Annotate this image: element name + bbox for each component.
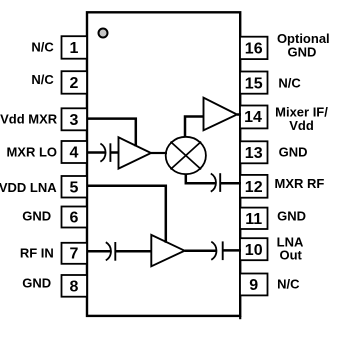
svg-text:Vdd MXR: Vdd MXR [0,111,58,126]
svg-text:10: 10 [245,242,263,259]
svg-text:N/C: N/C [31,72,54,87]
wire capacitor C3 to amp U5 input [115,250,152,253]
pin 4 box [62,141,88,163]
svg-text:3: 3 [70,112,79,129]
pin 12 box [240,175,268,198]
wire amp U4 output to pin 14 [237,113,241,116]
pin 10 box [240,238,268,260]
wire pin5 VDD LNA to amp U5 top [87,186,166,243]
svg-text:GND: GND [22,209,51,224]
wire amp U5 output to capacitor C4 [185,249,217,252]
pin 11 box [240,208,268,229]
op-amp U4 IF amp triangle [204,98,238,131]
svg-text:15: 15 [245,75,263,92]
capacitor C3 curved plate [106,242,111,260]
wire mixer bottom to capacitor C2 [186,174,216,183]
svg-text:6: 6 [70,210,79,227]
capacitor C3 straight plate [114,242,116,261]
svg-text:GND: GND [22,276,51,291]
wire amp U2 output to mixer [151,152,167,154]
wire pin3 Vdd MXR to amp U2 top [87,119,136,147]
capacitor C4 curved plate [211,242,216,260]
svg-text:GND: GND [277,208,306,223]
pin 15 box [240,72,268,94]
svg-text:MXR RF: MXR RF [275,176,325,191]
svg-text:Vdd: Vdd [289,118,314,133]
svg-text:11: 11 [245,211,262,228]
mixer U3 X diagonal 1 [171,142,202,170]
wire IC right edge overhang at bottom corner [239,316,241,319]
mixer U3 X diagonal 2 [171,142,202,170]
svg-text:14: 14 [244,109,262,126]
svg-text:1: 1 [70,40,79,57]
svg-text:9: 9 [249,277,258,294]
pin 3 box [62,108,88,130]
pin 1 box [62,36,88,59]
svg-text:4: 4 [70,145,79,162]
svg-text:2: 2 [70,75,79,92]
pin 7 box [62,243,88,264]
svg-text:N/C: N/C [31,40,54,55]
svg-text:8: 8 [70,278,79,295]
wire capacitor C2 to pin 12 [220,182,241,185]
op-amp U2 LO buffer triangle [119,137,152,168]
svg-text:GND: GND [279,144,308,159]
pin 5 box [62,176,88,198]
pin 2 box [62,71,88,94]
capacitor C2 straight plate [219,173,221,192]
wire capacitor C1 to amp U2 input [110,151,119,154]
svg-text:Out: Out [280,247,303,262]
capacitor C4 straight plate [222,241,224,260]
svg-text:GND: GND [288,44,317,59]
pin 8 box [62,275,88,297]
pin 14 box [240,106,268,129]
svg-text:12: 12 [245,179,263,196]
svg-text:N/C: N/C [277,277,300,292]
capacitor C1 straight plate [109,143,111,162]
wire pin4 MXR LO to capacitor C1 [87,151,106,154]
pin 13 box [240,141,268,163]
pin 9 box [240,274,268,296]
svg-text:N/C: N/C [278,75,301,90]
svg-text:VDD LNA: VDD LNA [0,180,57,195]
IC body U1 [87,12,240,316]
svg-text:13: 13 [245,145,263,162]
pin 1 index marker dot [99,29,108,38]
svg-text:5: 5 [70,179,79,196]
capacitor C2 curved plate [211,174,216,192]
svg-text:RF IN: RF IN [20,245,54,260]
svg-text:16: 16 [245,41,263,58]
svg-text:MXR LO: MXR LO [6,144,57,159]
pin 6 box [62,207,88,228]
mixer U3 circle [166,137,206,174]
op-amp U5 LNA triangle [151,235,184,266]
wire mixer top to amp U4 input [185,117,204,138]
wire capacitor C4 to pin 10 [223,249,241,252]
capacitor C1 curved plate [100,144,105,162]
wire pin7 RF IN to capacitor C3 [87,250,111,253]
pin 16 box [240,37,268,59]
svg-text:7: 7 [70,245,79,262]
